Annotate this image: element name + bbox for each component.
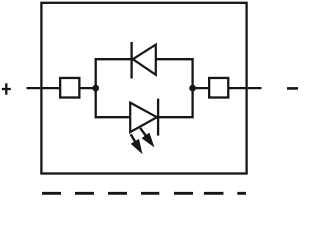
LED emission arrow (lower left) [131,134,143,154]
wire: resistor to left node [79,87,95,89]
wire: right branch loop (right vertical, from diode, from LED) [156,59,193,117]
wire: left branch loop (left vertical, top to diode, bottom to LED) [96,59,132,117]
resistor (right series element) [209,78,228,98]
resistor (left series element) [60,78,79,98]
node junction dot (left) [92,85,99,92]
outer module box [41,3,246,174]
plus terminal label [2,83,11,94]
node junction dot (right) [189,85,196,92]
diode D (top, cathode left) [132,42,156,79]
LED (bottom, anode left) [130,99,158,136]
mounting rail dashed line [42,192,246,195]
minus terminal label [287,87,298,90]
wire: resistor to minus lead out of box [228,87,261,89]
wire: plus lead into box [27,87,61,89]
wire: right node to resistor [193,87,210,89]
LED emission arrow (upper right) [140,128,154,147]
